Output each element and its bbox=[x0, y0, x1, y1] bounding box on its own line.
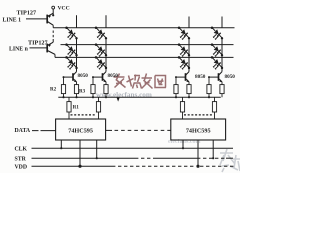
LED Dn1 bbox=[65, 56, 76, 69]
resistor R1 (column 1) bbox=[67, 97, 71, 119]
resistor R1' (column 2) bbox=[96, 97, 100, 119]
node U1-STR dot bbox=[96, 157, 98, 159]
svg-text:R3: R3 bbox=[79, 90, 86, 95]
svg-text:R2: R2 bbox=[50, 88, 57, 93]
transistor Q4 8050 (column 2) bbox=[93, 72, 106, 83]
node rail junction dots bbox=[62, 96, 210, 98]
svg-text:LINE 1: LINE 1 bbox=[3, 17, 22, 23]
IC U1 74HC595 bbox=[56, 119, 106, 140]
svg-text:VCC: VCC bbox=[58, 6, 70, 12]
svg-text:8050: 8050 bbox=[78, 73, 89, 79]
VCC terminal bbox=[52, 6, 70, 12]
LED Dn3 bbox=[178, 56, 189, 69]
svg-text:74HC595: 74HC595 bbox=[186, 127, 211, 134]
wire vertical to Q2 emitter bbox=[52, 39, 54, 42]
wire row 1 bbox=[53, 27, 234, 29]
wire U1 pin to STR bbox=[96, 140, 98, 158]
wire LINE 1 to Q1 base bbox=[26, 18, 47, 20]
wire CLK bus bbox=[32, 147, 234, 149]
LED D14 bbox=[211, 26, 222, 39]
wire serial link U1 to U2 (dashed) bbox=[106, 129, 112, 131]
node Q4 base dot bbox=[92, 76, 94, 78]
LED D12 bbox=[95, 26, 106, 39]
resistor R1'' (column 3) bbox=[180, 97, 184, 119]
IC U2 74HC595 bbox=[171, 119, 226, 140]
LED Dn4 bbox=[211, 56, 222, 69]
wire common rail bbox=[58, 96, 221, 98]
node U2-STR dot bbox=[212, 157, 214, 159]
svg-text:TIP127: TIP127 bbox=[17, 10, 37, 17]
svg-text:8050: 8050 bbox=[225, 74, 236, 80]
resistor R1''' (column 4) bbox=[212, 97, 216, 119]
wire U1 pin to CLK bbox=[60, 140, 62, 148]
resistor R3 (column 1 emitter) bbox=[74, 82, 78, 97]
svg-text:DATA: DATA bbox=[15, 128, 31, 134]
wire column 1 bbox=[76, 38, 78, 71]
node cathode dots column 4 bbox=[221, 37, 223, 69]
resistor R2' (column 2) bbox=[91, 77, 95, 97]
wire LINE n to Q2 base bbox=[30, 47, 48, 49]
wire U2 pin to CLK bbox=[182, 140, 184, 148]
wire column 3 stub above row 1 bbox=[188, 17, 190, 28]
resistor R3' (column 2 emitter) bbox=[104, 82, 108, 97]
watermark faint glyphs bottom right bbox=[220, 149, 240, 172]
wire U2 pin to VDD bbox=[197, 140, 199, 166]
svg-text:STR: STR bbox=[15, 156, 27, 162]
wire column 1 stub above row 1 bbox=[76, 15, 78, 27]
svg-text:8050: 8050 bbox=[195, 74, 206, 80]
wire column 3 bbox=[188, 38, 190, 71]
svg-text:8050: 8050 bbox=[108, 73, 119, 79]
node U1-CLK dot bbox=[60, 147, 62, 149]
wire VDD bus bbox=[32, 165, 113, 167]
wire VCC vertical to Q1 emitter bbox=[52, 9, 54, 15]
node U2-CLK dot bbox=[182, 147, 184, 149]
svg-text:74HC595: 74HC595 bbox=[68, 127, 93, 134]
resistor R2'' (column 3) bbox=[174, 77, 178, 97]
node Q6 base dot bbox=[208, 76, 210, 78]
node cathode dots column 2 bbox=[105, 37, 107, 69]
wire Q1 collector to row 1 bbox=[52, 25, 54, 28]
LED Dn2 bbox=[95, 56, 106, 69]
transistor Q6 8050 (column 4) bbox=[209, 72, 222, 83]
svg-text:TIP127: TIP127 bbox=[28, 39, 48, 46]
resistor R2''' (column 4) bbox=[207, 77, 211, 97]
node U2-VDD dot bbox=[196, 165, 199, 168]
transistor Q5 8050 (column 3) bbox=[176, 72, 189, 83]
wire U2 pin to STR bbox=[212, 140, 214, 158]
node Q5 base dot bbox=[175, 76, 177, 78]
watermark chinese characters bbox=[114, 74, 167, 89]
resistor R3''' (column 4 emitter) bbox=[220, 82, 224, 97]
node Q1 emitter junction bbox=[52, 14, 54, 16]
LED D13 bbox=[178, 26, 189, 39]
LED D23 bbox=[178, 43, 189, 56]
resistor R3'' (column 3 emitter) bbox=[187, 82, 191, 97]
ground arrow on rail bbox=[117, 98, 120, 102]
wire dashed VCC continuation bbox=[52, 31, 54, 40]
wire Q2 collector to row n bbox=[54, 54, 56, 57]
wire column 4 stub above row 1 bbox=[221, 17, 223, 28]
LED D22 bbox=[95, 43, 106, 56]
transistor Q2 TIP127 bbox=[47, 42, 55, 54]
node U1-VDD dot bbox=[78, 165, 81, 168]
wire row n bbox=[55, 56, 234, 58]
svg-text:VDD: VDD bbox=[15, 164, 28, 170]
wire dashed omitted pins U2 bbox=[184, 114, 213, 116]
node cathode dots column 3 bbox=[188, 37, 190, 69]
LED D21 bbox=[65, 43, 76, 56]
resistor R2 (column 1) bbox=[61, 77, 65, 97]
wire U1 pin to VDD bbox=[79, 140, 81, 166]
wire column 2 bbox=[105, 38, 107, 71]
LED D11 bbox=[65, 26, 76, 39]
svg-text:R1: R1 bbox=[73, 105, 80, 110]
wire row 2 bbox=[61, 44, 234, 46]
svg-text:www.elecfans.com: www.elecfans.com bbox=[96, 91, 152, 99]
svg-text:LINE n: LINE n bbox=[9, 46, 29, 52]
svg-text:CLK: CLK bbox=[15, 146, 28, 152]
wire column 2 stub above row 1 bbox=[105, 15, 107, 27]
node cathode dots column 1 bbox=[75, 37, 77, 69]
wire column 4 bbox=[221, 38, 223, 71]
wire DATA to U1 bbox=[32, 130, 56, 132]
wire dashed omitted pins U1 bbox=[71, 114, 97, 116]
transistor Q1 TIP127 bbox=[47, 13, 53, 25]
wire STR bus bbox=[32, 157, 136, 159]
LED D24 bbox=[211, 43, 222, 56]
transistor Q3 8050 (column 1) bbox=[64, 72, 77, 83]
node Q3 base dot bbox=[63, 76, 65, 78]
